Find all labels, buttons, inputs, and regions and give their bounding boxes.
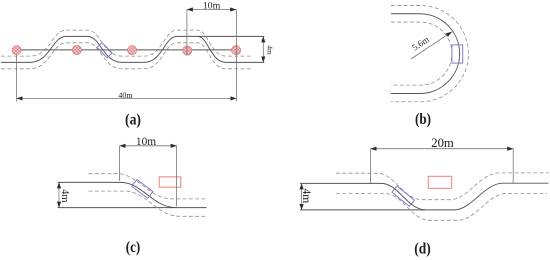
wire: lower dashed boundary (d) [336,193,547,220]
wire: crest extension line to 4m dimension [198,35,265,37]
svg-text:4m: 4m [265,45,273,55]
svg-text:5.6m: 5.6m [410,34,431,53]
svg-text:10m: 10m [136,134,157,148]
wire: lower straight line (d) [300,209,425,211]
svg-text:4m: 4m [59,189,70,202]
obstacle rectangle (c) [159,177,181,187]
pylon 2 [72,45,81,54]
svg-text:(c): (c) [126,239,141,256]
wire: upper path with S-curve (c) [58,182,177,207]
svg-text:40m: 40m [118,91,133,100]
wire: main path with double S-curve (d) [300,183,549,210]
pylon 1 [12,46,21,55]
vehicle rectangle (c) [132,179,153,198]
svg-text:4m: 4m [300,188,312,203]
svg-text:(b): (b) [415,111,431,128]
dimension 4m (c) [59,182,70,207]
dimension 4m (a) [263,36,273,62]
wire: U-turn solid path [391,14,460,94]
dimension 40m (a) [17,55,237,102]
svg-text:20m: 20m [431,135,454,150]
obstacle rectangle (d) [428,176,452,188]
wire: lower dashed boundary of slalom [1,43,253,69]
svg-text:10m: 10m [203,1,221,11]
wire: lower straight line (c) [58,207,207,209]
dimension 10m (a) [187,1,237,102]
dimension 20m (d) [371,135,514,183]
wire: lower dashed boundary (c) [89,191,208,216]
vehicle rectangle (b) [452,45,463,63]
pylon 5 [232,46,241,55]
wire: upper dashed boundary (d) [336,173,549,200]
wire: outer dashed boundary (b) [391,6,468,102]
wire: upper dashed boundary of slalom [1,30,253,56]
pylon 4 [183,46,192,55]
svg-text:(d): (d) [414,240,431,257]
wire: pylon base line [17,49,237,51]
svg-text:(a): (a) [125,112,141,129]
vehicle rectangle (d) [392,186,415,206]
wire: inner dashed boundary (b) [391,22,452,85]
pylon 3 [128,46,137,55]
dimension 4m (d) [300,183,312,210]
dimension 10m (c) [120,134,177,207]
wire: slalom path solid line [1,36,264,62]
vehicle rectangle (a) [97,43,112,58]
dimension radius 5.6m (b) [410,32,452,59]
wire: upper dashed boundary (c) [89,174,208,199]
